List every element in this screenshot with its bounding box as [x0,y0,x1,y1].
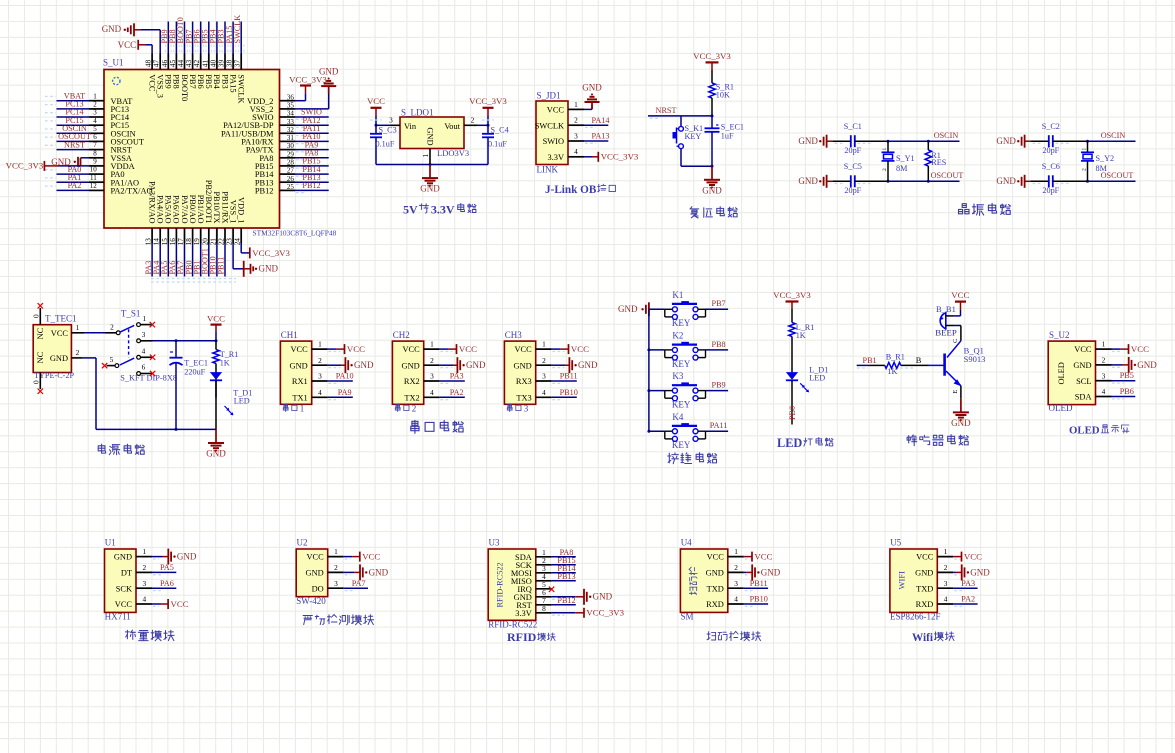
svg-text:LED: LED [809,374,825,383]
svg-text:GND: GND [1073,361,1091,370]
svg-text:S_Y1: S_Y1 [896,154,915,163]
svg-text:TX2: TX2 [404,393,419,402]
svg-text:OLED: OLED [1069,424,1100,436]
svg-text:SCL: SCL [1076,377,1091,386]
svg-text:PB5: PB5 [204,74,213,88]
svg-text:OLED: OLED [1049,403,1073,413]
svg-text:1: 1 [421,154,430,158]
svg-text:1: 1 [574,100,578,109]
svg-text:1: 1 [430,340,434,349]
svg-text:HX711: HX711 [105,612,131,622]
svg-text:PA7: PA7 [352,579,366,588]
svg-text:3.3V: 3.3V [515,609,532,618]
svg-text:S_C3: S_C3 [379,126,397,135]
svg-text:VSS_1: VSS_1 [228,200,237,224]
svg-text:OSCIN: OSCIN [1101,131,1126,140]
svg-text:DT: DT [121,569,132,578]
svg-text:S_EC1: S_EC1 [721,122,744,131]
svg-text:GND: GND [466,360,486,370]
svg-text:Vout: Vout [444,122,460,131]
svg-text:PA11: PA11 [710,421,728,430]
svg-text:RX2: RX2 [404,377,420,386]
svg-text:T_EC1: T_EC1 [184,358,208,367]
svg-text:KEY: KEY [672,318,691,328]
svg-text:K3: K3 [672,371,683,381]
svg-text:GND: GND [290,361,308,370]
svg-text:RX3: RX3 [516,377,532,386]
svg-text:GND: GND [206,449,226,459]
svg-text:SDA: SDA [1075,393,1092,402]
svg-text:3: 3 [318,372,322,381]
svg-text:VCC: VCC [367,96,385,106]
svg-text:PA2: PA2 [450,388,464,397]
svg-text:KEY: KEY [685,132,702,141]
svg-text:GND: GND [420,184,440,194]
svg-text:PB10/TX: PB10/TX [212,191,221,223]
svg-text:KEY: KEY [672,440,691,450]
svg-text:RFID-RC522: RFID-RC522 [488,619,537,629]
svg-text:NRST: NRST [64,140,85,149]
svg-text:GND: GND [114,553,132,562]
svg-text:GND: GND [582,82,602,92]
svg-text:S_U1: S_U1 [103,58,124,68]
svg-text:VCC: VCC [51,329,69,338]
svg-text:GND: GND [996,136,1016,146]
svg-text:27: 27 [287,167,295,175]
svg-text:PB11: PB11 [217,257,226,275]
svg-text:2: 2 [76,348,80,357]
svg-text:VCC: VCC [290,345,308,354]
svg-text:PA13: PA13 [592,132,610,141]
svg-text:GND: GND [761,567,781,577]
svg-text:BOOT0: BOOT0 [180,74,189,101]
svg-text:J-Link OB: J-Link OB [545,184,597,196]
svg-text:3: 3 [542,372,546,381]
svg-text:RFID: RFID [507,630,537,644]
svg-text:3: 3 [389,116,393,125]
svg-text:20pF: 20pF [1042,146,1059,155]
svg-text:2: 2 [142,563,146,572]
svg-text:GND: GND [1137,360,1157,370]
svg-text:GND: GND [102,24,122,34]
svg-text:STM32F103C8T6_LQFP48: STM32F103C8T6_LQFP48 [253,229,337,238]
svg-text:PB7: PB7 [188,74,197,88]
svg-text:35: 35 [287,102,295,110]
svg-text:TXD: TXD [707,584,724,593]
svg-text:3.3V: 3.3V [431,203,455,217]
svg-text:2: 2 [334,563,338,572]
svg-text:VCC_3V3: VCC_3V3 [601,152,639,162]
svg-text:2: 2 [430,356,434,365]
svg-text:20pF: 20pF [844,186,861,195]
svg-text:0.1uF: 0.1uF [376,140,395,149]
svg-text:VCC: VCC [951,290,969,300]
svg-text:VCC: VCC [964,552,982,562]
svg-text:PB3: PB3 [220,74,229,88]
svg-text:S_U2: S_U2 [1049,330,1070,340]
svg-text:VCC: VCC [514,345,532,354]
svg-text:PB9: PB9 [712,381,726,390]
svg-text:VCC: VCC [147,74,156,92]
svg-text:7: 7 [93,141,97,149]
svg-text:PB6: PB6 [196,74,205,88]
svg-text:PA3: PA3 [450,372,464,381]
svg-text:U5: U5 [890,538,901,548]
svg-text:PB6: PB6 [1120,387,1134,396]
svg-text:2: 2 [542,356,546,365]
svg-text:Vin: Vin [404,122,417,131]
svg-text:PB12: PB12 [255,187,274,196]
svg-text:VCC: VCC [547,106,565,115]
svg-text:S_LDO1: S_LDO1 [401,107,434,117]
svg-text:VCC_3V3: VCC_3V3 [469,96,507,106]
svg-text:9: 9 [93,158,97,166]
svg-text:PA9: PA9 [338,388,352,397]
svg-text:10K: 10K [716,90,730,99]
svg-text:RFID-RC522: RFID-RC522 [496,562,505,607]
svg-text:PB9: PB9 [164,74,173,88]
svg-text:1K: 1K [887,367,897,376]
svg-text:WIFI: WIFI [897,571,907,590]
svg-text:3: 3 [142,330,146,339]
svg-text:PA4/AO: PA4/AO [156,195,165,224]
svg-text:T_S1: T_S1 [121,309,141,319]
svg-text:25: 25 [287,183,295,191]
svg-text:VCC_3V3: VCC_3V3 [693,51,731,61]
svg-text:GND: GND [578,360,598,370]
svg-text:220uF: 220uF [184,367,205,376]
svg-text:VCC: VCC [347,344,365,354]
svg-text:VCC: VCC [707,553,725,562]
svg-text:PA10: PA10 [336,372,354,381]
svg-text:GND: GND [951,418,971,428]
svg-text:PA2/TX/AO: PA2/TX/AO [111,187,153,196]
svg-text:PB1/AO: PB1/AO [196,195,205,224]
svg-text:VCC: VCC [1131,344,1149,354]
svg-text:2: 2 [944,563,948,572]
svg-text:CH2: CH2 [393,330,410,340]
svg-text:RES: RES [931,158,946,167]
svg-text:SWCLK: SWCLK [237,74,246,103]
svg-text:PA3/RX/AO: PA3/RX/AO [147,181,156,224]
svg-text:K4: K4 [672,412,683,422]
svg-text:RX1: RX1 [292,377,308,386]
svg-text:36: 36 [287,93,295,101]
svg-text:ESP8266-12F: ESP8266-12F [890,612,941,622]
svg-text:PA7/AO: PA7/AO [180,195,189,224]
svg-text:PB11/RX: PB11/RX [220,191,229,223]
svg-text:TX1: TX1 [292,393,307,402]
svg-text:T_TEC1: T_TEC1 [45,313,77,323]
svg-text:GND: GND [259,264,279,274]
svg-text:PA6: PA6 [160,579,174,588]
svg-text:SWCLK: SWCLK [535,121,564,130]
svg-text:VCC: VCC [571,344,589,354]
svg-text:U2: U2 [297,538,308,548]
svg-text:GND: GND [798,176,818,186]
svg-text:3: 3 [734,579,738,588]
svg-text:29: 29 [287,150,295,158]
svg-text:PB5: PB5 [1120,371,1134,380]
svg-text:GND: GND [618,304,638,314]
svg-text:U1: U1 [105,538,116,548]
svg-text:VCC_3V3: VCC_3V3 [773,290,811,300]
svg-text:S_KFT DIP-8X8: S_KFT DIP-8X8 [120,374,177,383]
svg-text:1: 1 [142,547,146,556]
svg-text:1: 1 [76,323,80,332]
svg-text:1: 1 [318,340,322,349]
svg-text:PB4: PB4 [212,74,221,89]
svg-text:GND: GND [915,569,933,578]
svg-text:K1: K1 [672,290,683,300]
svg-text:SWIO: SWIO [543,137,564,146]
svg-text:GND: GND [996,176,1016,186]
svg-text:LDO3V3: LDO3V3 [437,148,469,158]
svg-text:LINK: LINK [537,164,559,174]
svg-text:B_R1: B_R1 [886,352,905,361]
svg-text:1: 1 [334,547,338,556]
svg-text:1uF: 1uF [721,132,734,141]
svg-text:SWCLK: SWCLK [233,15,242,44]
svg-text:VCC: VCC [402,345,420,354]
svg-text:S_C1: S_C1 [844,122,862,131]
svg-text:GND: GND [50,354,68,363]
svg-text:3: 3 [524,404,529,414]
svg-text:3: 3 [944,579,948,588]
svg-text:E: E [952,390,959,394]
svg-text:2: 2 [734,563,738,572]
svg-text:2: 2 [110,322,114,331]
svg-text:OSCOUT: OSCOUT [931,171,964,180]
svg-text:PB2/BOOT1: PB2/BOOT1 [204,180,213,224]
svg-text:S_Y2: S_Y2 [1096,154,1115,163]
svg-text:8M: 8M [896,164,908,173]
svg-text:PB8: PB8 [172,74,181,88]
svg-text:2: 2 [412,404,417,414]
svg-text:6: 6 [142,363,146,372]
svg-text:NRST: NRST [656,106,677,115]
svg-text:K2: K2 [672,330,683,340]
svg-text:PA14: PA14 [592,116,610,125]
svg-text:33: 33 [287,118,295,126]
svg-text:11: 11 [90,174,97,182]
svg-text:VCC: VCC [118,40,137,50]
svg-text:6: 6 [93,133,97,141]
svg-text:VCC: VCC [207,313,225,323]
svg-text:26: 26 [287,175,295,183]
svg-text:PB10: PB10 [560,388,578,397]
svg-text:VCC: VCC [916,553,934,562]
svg-text:8M: 8M [1096,164,1108,173]
svg-text:U4: U4 [681,538,692,548]
svg-text:32: 32 [287,126,295,134]
svg-text:20pF: 20pF [844,146,861,155]
svg-text:4: 4 [574,147,578,156]
svg-text:RXD: RXD [706,600,724,609]
svg-text:GND: GND [702,185,722,195]
svg-text:PB11: PB11 [560,372,578,381]
svg-text:PA2: PA2 [68,181,82,190]
svg-text:VCC_3V3: VCC_3V3 [586,608,624,618]
svg-text:2: 2 [882,168,888,171]
svg-text:GND: GND [798,136,818,146]
svg-text:0: 0 [32,380,41,384]
svg-text:PB0/AO: PB0/AO [188,195,197,224]
svg-text:34: 34 [287,110,295,118]
svg-text:PB0: PB0 [788,406,797,420]
svg-text:0: 0 [32,314,41,318]
svg-text:VDD_1: VDD_1 [237,197,246,224]
svg-text:GND: GND [593,592,613,602]
svg-text:4: 4 [142,595,146,604]
svg-text:VCC: VCC [754,552,772,562]
svg-text:1: 1 [142,314,146,323]
svg-text:VCC: VCC [171,599,189,609]
svg-text:4: 4 [430,388,434,397]
svg-text:CH3: CH3 [505,330,523,340]
svg-text:VCC: VCC [306,553,324,562]
svg-text:1: 1 [944,547,948,556]
svg-text:PB7: PB7 [712,299,726,308]
svg-text:PB8: PB8 [712,340,726,349]
svg-text:20pF: 20pF [1042,186,1059,195]
svg-text:NC: NC [35,351,45,363]
svg-text:S_C5: S_C5 [844,162,862,171]
svg-text:VCC: VCC [1074,345,1092,354]
svg-text:SW-420: SW-420 [296,596,326,606]
svg-text:BEEP: BEEP [935,327,957,337]
svg-text:S_C2: S_C2 [1042,122,1060,131]
svg-text:LED: LED [234,397,250,406]
svg-text:GND: GND [970,567,990,577]
svg-text:5V: 5V [403,203,418,217]
svg-text:5: 5 [93,125,97,133]
svg-text:RXD: RXD [916,600,934,609]
svg-text:Wifi: Wifi [912,632,933,644]
svg-text:PA5/AO: PA5/AO [164,195,173,224]
svg-text:PB10: PB10 [750,595,768,604]
svg-text:2: 2 [1081,168,1087,171]
svg-text:KEY: KEY [672,400,691,410]
svg-text:28: 28 [287,159,295,167]
svg-text:31: 31 [287,134,295,142]
svg-text:8: 8 [93,149,97,157]
svg-text:2: 2 [318,356,322,365]
svg-text:CH1: CH1 [281,330,298,340]
svg-text:4: 4 [318,388,322,397]
svg-text:VSS_3: VSS_3 [156,74,165,98]
svg-text:GND: GND [354,360,374,370]
svg-text:3: 3 [574,131,578,140]
svg-text:10: 10 [90,166,98,174]
svg-text:PA15: PA15 [228,74,237,92]
svg-text:0.1uF: 0.1uF [488,140,507,149]
svg-text:1: 1 [93,92,97,100]
svg-text:1K: 1K [220,359,230,368]
svg-text:1: 1 [734,547,738,556]
svg-text:VCC_3V3: VCC_3V3 [252,248,290,258]
svg-text:B_B1: B_B1 [936,304,956,314]
svg-text:GND: GND [514,361,532,370]
svg-text:PA3: PA3 [961,579,975,588]
svg-text:GND: GND [177,552,197,562]
svg-text:4: 4 [734,595,738,604]
svg-text:5: 5 [110,355,114,364]
svg-text:PA5: PA5 [160,563,174,572]
svg-text:4: 4 [542,388,546,397]
svg-text:VCC: VCC [362,552,380,562]
svg-text:3: 3 [93,109,97,117]
svg-text:1: 1 [300,404,305,414]
svg-text:1: 1 [1102,340,1106,349]
svg-text:1: 1 [882,148,888,151]
svg-text:1: 1 [542,340,546,349]
svg-text:S9013: S9013 [964,354,986,364]
svg-text:2: 2 [93,101,97,109]
svg-text:LED: LED [777,436,802,450]
svg-text:37: 37 [233,60,242,68]
svg-text:SCK: SCK [116,584,132,593]
svg-text:S_C6: S_C6 [1042,162,1060,171]
svg-text:U3: U3 [489,538,500,548]
svg-text:PB12: PB12 [302,181,320,190]
svg-text:12: 12 [90,182,98,190]
svg-text:PB11: PB11 [750,579,768,588]
svg-text:GND: GND [369,567,389,577]
svg-text:GND: GND [426,127,435,145]
svg-text:GND: GND [402,361,420,370]
svg-text:B: B [916,356,922,365]
svg-text:S_C4: S_C4 [491,126,509,135]
svg-text:3: 3 [430,372,434,381]
svg-text:TXD: TXD [916,584,933,593]
svg-text:1: 1 [1081,148,1087,151]
svg-text:2: 2 [1102,356,1106,365]
svg-text:DO: DO [312,584,324,593]
svg-text:NC: NC [35,327,45,339]
svg-text:VCC: VCC [459,344,477,354]
svg-text:4: 4 [142,347,146,356]
svg-text:S_JD1: S_JD1 [537,90,561,100]
svg-text:GND: GND [306,569,324,578]
svg-text:30: 30 [287,142,295,150]
svg-text:1K: 1K [796,331,806,340]
svg-text:C: C [952,339,959,343]
svg-text:SM: SM [681,612,694,622]
svg-text:4: 4 [944,595,948,604]
svg-text:TX3: TX3 [516,393,531,402]
svg-text:8: 8 [542,604,546,613]
svg-text:3: 3 [1102,371,1106,380]
svg-text:GND: GND [319,67,339,77]
svg-text:3: 3 [334,579,338,588]
svg-text:KEY: KEY [672,359,691,369]
svg-text:PB13: PB13 [557,572,575,581]
svg-text:VCC: VCC [115,600,133,609]
svg-text:2: 2 [574,116,578,125]
svg-text:3.3V: 3.3V [547,153,564,162]
svg-text:OSCIN: OSCIN [934,131,959,140]
svg-text:PB1: PB1 [863,356,877,365]
svg-text:VCC_3V3: VCC_3V3 [6,161,44,171]
svg-text:4: 4 [1102,387,1106,396]
svg-text:OLED: OLED [1057,362,1066,384]
svg-text:3: 3 [142,579,146,588]
svg-text:4: 4 [93,117,97,125]
svg-text:PA6/AO: PA6/AO [172,195,181,224]
svg-text:PA2: PA2 [961,595,975,604]
svg-text:2: 2 [471,116,475,125]
